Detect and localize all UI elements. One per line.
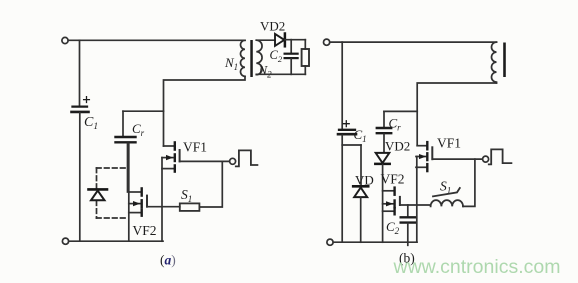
capacitor C1 (a) <box>72 97 90 112</box>
pulse source (b) <box>483 156 489 162</box>
wire top rail (b) <box>330 41 497 43</box>
terminal bottom-left (b) <box>327 239 333 245</box>
MOSFET VF2 (a) <box>129 143 147 241</box>
svg-text:N1: N1 <box>224 55 238 72</box>
svg-text:Cr: Cr <box>132 121 145 138</box>
wire left rail (a) lower <box>79 113 81 241</box>
svg-text:C1: C1 <box>354 127 367 144</box>
secondary bottom wire (a) <box>256 73 305 75</box>
svg-text:S1: S1 <box>181 187 192 204</box>
capacitor C2 (a) <box>290 40 292 53</box>
svg-text:N2: N2 <box>258 63 273 80</box>
capacitor C2 (b) <box>407 205 409 217</box>
MOSFET VF1 (b) <box>416 142 482 242</box>
svg-text:VF1: VF1 <box>183 140 207 155</box>
wire VF2 gate to inductor (b) <box>400 204 431 206</box>
wire left rail (a) upper <box>79 40 81 105</box>
transformer secondary N2 winding (a) <box>256 40 262 74</box>
MOSFET VF1 (a) <box>162 142 230 241</box>
diode VD2 (b) <box>383 134 385 152</box>
MOSFET VF2 (b) <box>383 165 400 243</box>
wire S1 to VF2 gate (a) <box>147 206 180 208</box>
wire left rail (b) upper <box>341 42 343 129</box>
secondary top wire (a) <box>285 39 305 41</box>
svg-text:www.cntronics.com: www.cntronics.com <box>392 256 560 278</box>
svg-text:C1: C1 <box>84 115 98 132</box>
inductor S1 (b) <box>431 200 463 206</box>
wire transformer bottom (b) <box>417 83 496 146</box>
diode VD2 (a) <box>256 39 275 41</box>
wire Cr top node (a) <box>123 110 164 112</box>
wire bottom rail (b) <box>333 241 417 243</box>
body diode dashed box (a) <box>97 168 129 218</box>
svg-text:VF1: VF1 <box>437 136 461 151</box>
load resistor (a) <box>304 40 306 49</box>
capacitor Cr (a) <box>122 111 124 136</box>
terminal top-left (b) <box>324 39 330 45</box>
svg-text:VD2: VD2 <box>385 139 410 154</box>
wire primary bottom to drain node (a) <box>164 76 246 146</box>
wire top rail (a) <box>68 39 245 41</box>
svg-text:C2: C2 <box>270 48 283 64</box>
svg-text:Cr: Cr <box>389 116 402 133</box>
wire VD stub (b) <box>342 144 361 146</box>
terminal bottom-left (a) <box>62 238 68 244</box>
svg-text:C2: C2 <box>386 219 400 236</box>
wire inductor to gate node (b) <box>463 159 475 206</box>
body diode VD (a) <box>89 188 108 191</box>
wire gate loop down (a) <box>200 161 223 207</box>
transformer core (b) <box>503 43 506 78</box>
diode VD (b) <box>360 145 362 186</box>
capacitor C1 (b) <box>338 121 356 134</box>
transformer primary N1 winding (a) <box>241 40 246 76</box>
wire bottom rail (a) <box>69 240 163 242</box>
svg-text:VF2: VF2 <box>133 223 157 238</box>
svg-text:VD: VD <box>355 173 374 188</box>
transformer primary winding (b) <box>492 42 497 83</box>
svg-text:VF2: VF2 <box>381 172 405 187</box>
transformer core (a) <box>250 40 253 77</box>
resistor S1 (a) <box>180 203 200 211</box>
wire left rail (b) lower <box>341 135 343 242</box>
svg-text:(a): (a) <box>160 253 176 268</box>
svg-text:VD2: VD2 <box>260 19 285 34</box>
pulse source (a) <box>230 158 236 164</box>
wire Cr bottom to VF2 drain (a) <box>127 143 129 192</box>
capacitor Cr (b) <box>383 111 385 127</box>
terminal top-left (a) <box>62 37 68 43</box>
